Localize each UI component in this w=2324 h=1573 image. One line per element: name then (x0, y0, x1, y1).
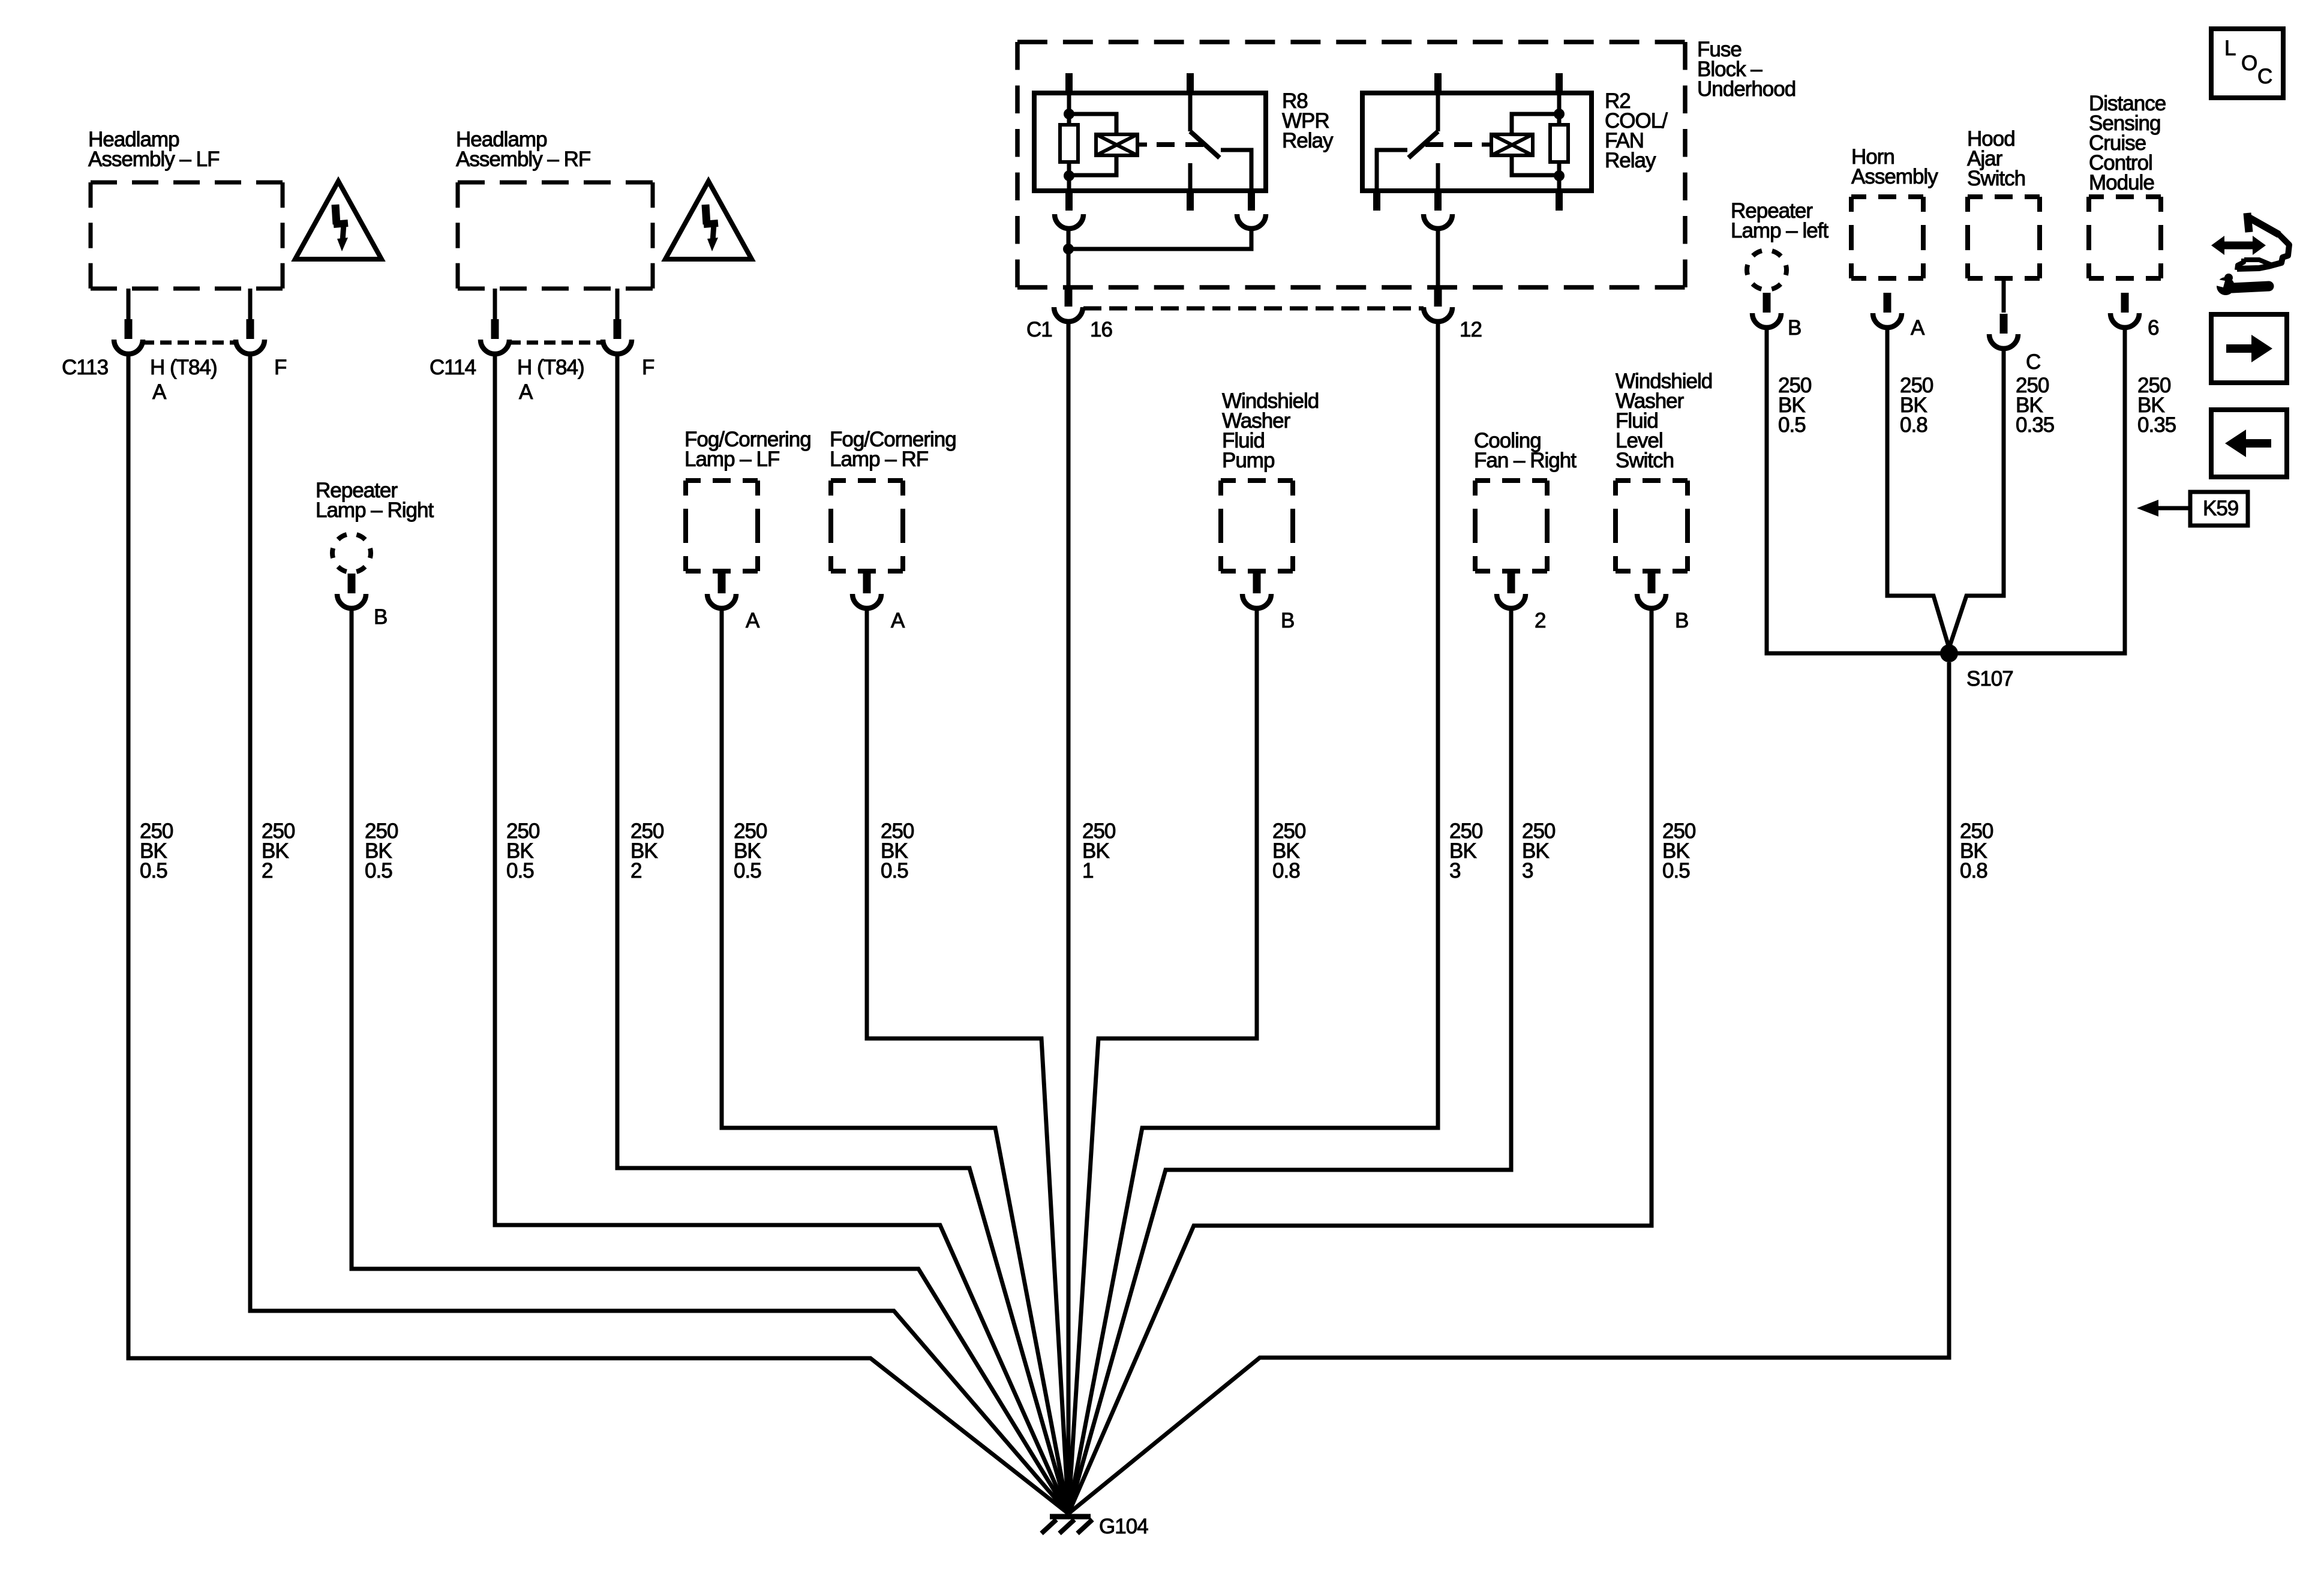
svg-text:Assembly – LF: Assembly – LF (88, 148, 219, 171)
svg-text:3: 3 (1449, 859, 1460, 882)
connector fog RF pin A (852, 574, 881, 608)
label 250 BK 2 (w2) (262, 819, 295, 882)
svg-text:Lamp – LF: Lamp – LF (684, 448, 779, 471)
windshield washer fluid pump label (1222, 389, 1319, 472)
svg-text:0.8: 0.8 (1960, 859, 1987, 882)
relay R8 bottom pin 2 (1187, 191, 1194, 211)
headlamp RF stub pin H (493, 289, 497, 320)
connector repeater right pin B (337, 574, 366, 608)
K59 arrow line (2157, 506, 2190, 511)
label C113 (62, 356, 108, 379)
wire 1 C113-A to ground (128, 354, 1068, 1514)
label 16 (1090, 318, 1112, 341)
relay R2 winding (1491, 134, 1533, 155)
horn assembly label (1851, 145, 1938, 188)
svg-text:Switch: Switch (1967, 167, 2025, 190)
headlamp RF stub pin F (615, 289, 620, 320)
LOC letters (2224, 37, 2272, 88)
svg-text:0.8: 0.8 (1900, 413, 1927, 437)
wire module to S107 (1954, 328, 2125, 653)
label 250 BK 0.5 (w4) (506, 819, 540, 882)
svg-text:3: 3 (1522, 859, 1533, 882)
wire 6 fog LF to ground (722, 608, 1068, 1514)
hood ajar switch box (1968, 197, 2040, 278)
wire hood ajar to S107 (1949, 349, 2004, 648)
repeater lamp left dashed circle (1747, 250, 1786, 290)
relay R8 junction dot top (1064, 109, 1074, 119)
label H (T84) RF (517, 356, 584, 379)
svg-text:6: 6 (2148, 316, 2158, 340)
connector pump pin B (1242, 574, 1271, 608)
relay R8 bottom pin 3 (1248, 191, 1255, 211)
relay R8 junction dot bottom (1064, 170, 1074, 181)
cooling fan right label (1474, 429, 1577, 472)
relay R8 top pin 1 (1065, 73, 1073, 93)
fog/cornering lamp RF box (831, 481, 903, 571)
relay R2 top pin 2 (1556, 73, 1563, 93)
svg-text:Relay: Relay (1605, 149, 1656, 172)
svg-text:L: L (2224, 37, 2236, 60)
svg-text:0.35: 0.35 (2016, 413, 2054, 437)
wire 9 pump to ground (1068, 608, 1257, 1514)
relay R8 bottom pin 1 (1065, 191, 1073, 211)
svg-text:B: B (1675, 609, 1688, 632)
svg-text:12: 12 (1460, 318, 1482, 341)
connector hood ajar pin C (1989, 314, 2018, 349)
svg-text:C114: C114 (430, 356, 476, 379)
headlamp assembly RF label (456, 128, 590, 171)
svg-text:F: F (642, 356, 654, 379)
connector C1 pin 16 (1054, 289, 1083, 322)
relay R2 switch contact wire (1377, 150, 1407, 191)
svg-text:0.35: 0.35 (2137, 413, 2176, 437)
label C114 (430, 356, 476, 379)
label 250 BK 0.35 (hood ajar) (2016, 374, 2054, 437)
headlamp LF stub pin F (248, 289, 253, 320)
label pin A (horn) (1911, 316, 1925, 340)
svg-text:Lamp – RF: Lamp – RF (830, 448, 928, 471)
svg-text:0.5: 0.5 (1662, 859, 1690, 882)
svg-text:0.5: 0.5 (140, 859, 167, 882)
relay R8 box (1034, 93, 1266, 191)
wire 12 level switch to ground (1068, 608, 1652, 1514)
svg-text:0.8: 0.8 (1272, 859, 1300, 882)
svg-text:Underhood: Underhood (1697, 77, 1795, 101)
windshield washer fluid level switch label (1616, 370, 1712, 472)
relay R8 switch blade (1190, 131, 1220, 158)
warning triangle LF (295, 181, 382, 259)
relay R8 switch contact wire (1221, 150, 1251, 191)
svg-text:A: A (152, 380, 167, 404)
svg-text:Assembly – RF: Assembly – RF (456, 148, 590, 171)
relay R8 output link wire (1068, 229, 1251, 249)
label pin F (C114) (642, 356, 654, 379)
relay R8 switch pivot wire (1188, 93, 1193, 131)
distance sensing cruise control module label (2089, 92, 2166, 194)
svg-text:Lamp – Right: Lamp – Right (316, 499, 434, 522)
wire 13 S107 to ground (1068, 662, 1949, 1514)
wire 3 repeater right to ground (352, 608, 1068, 1514)
label pin 6 (module) (2148, 316, 2158, 340)
relay R2 label (1605, 89, 1668, 172)
svg-text:C1: C1 (1026, 318, 1052, 341)
svg-text:Assembly: Assembly (1851, 165, 1938, 188)
connector C114 pin F (603, 319, 632, 354)
label G104 (1099, 1515, 1148, 1538)
connector C113 pin A (114, 319, 143, 354)
connector fan pin 2 (1497, 574, 1526, 608)
label pin A (fog RF) (891, 609, 905, 632)
svg-text:H (T84): H (T84) (517, 356, 584, 379)
K59 box (2190, 492, 2248, 526)
svg-text:B: B (1281, 609, 1294, 632)
svg-text:H (T84): H (T84) (150, 356, 217, 379)
relay R8 actuation dashes (1157, 142, 1203, 147)
right arrow box (2211, 314, 2287, 383)
relay R2 winding loop bottom (1512, 155, 1559, 175)
headlamp assembly LF label (88, 128, 219, 171)
relay R8 label (1282, 89, 1334, 152)
svg-text:2: 2 (630, 859, 641, 882)
repeater lamp right dashed circle (332, 534, 371, 572)
wire 5 C114-F to ground (617, 354, 1068, 1514)
svg-text:B: B (1788, 316, 1801, 340)
relay R2 resistor (1550, 125, 1568, 162)
cooling fan right box (1475, 481, 1547, 571)
relay R8 bottom arc 3 (1237, 214, 1266, 229)
svg-text:O: O (2241, 52, 2257, 75)
svg-text:A: A (746, 609, 760, 632)
hood ajar switch stub (2002, 278, 2006, 313)
wire 8 C1-16 to ground (1067, 322, 1071, 1514)
relay R2 bottom pin 3 (1556, 191, 1563, 211)
wire 2 C113-F to ground (250, 354, 1068, 1514)
svg-text:2: 2 (1535, 609, 1545, 632)
wire repeater left to S107 (1767, 328, 1944, 653)
connector level switch pin B (1637, 574, 1666, 608)
svg-text:A: A (519, 380, 533, 404)
label 250 BK 2 (w5) (630, 819, 664, 882)
relay R2 winding stub (1482, 143, 1491, 147)
connector C113 pin F (236, 319, 265, 354)
fuse block underhood label (1697, 38, 1795, 101)
label pin B (repeater left) (1788, 316, 1801, 340)
label pin C (hood ajar) (2026, 350, 2040, 374)
relay R8 winding loop top (1069, 114, 1116, 134)
label pin B (repeater right) (374, 605, 387, 629)
label 250 BK 3 (w10) (1449, 819, 1483, 882)
svg-text:16: 16 (1090, 318, 1112, 341)
label 12 (1460, 318, 1482, 341)
relay R2 winding loop top (1512, 114, 1559, 134)
ground G104 symbol (1041, 1517, 1092, 1533)
label 250 BK 0.5 (w6) (734, 819, 767, 882)
adjust icon wrench (2211, 274, 2269, 295)
svg-text:F: F (274, 356, 286, 379)
repeater lamp left label (1731, 199, 1828, 242)
relay R2 switch blade (1409, 131, 1438, 158)
wire 4 C114-A to ground (495, 354, 1068, 1514)
relay R8 coil wire bottom (1067, 162, 1071, 191)
connector module pin 6 (2110, 293, 2139, 328)
adjust icon double arrow (2211, 236, 2266, 255)
wire 11 fan to ground (1068, 608, 1511, 1514)
relay R2 box (1362, 93, 1592, 191)
svg-text:C: C (2026, 350, 2040, 374)
label 250 BK 0.8 (horn) (1900, 374, 1933, 437)
relay R8 bottom arc 1 (1055, 214, 1083, 229)
right arrow (2226, 335, 2272, 362)
relay R2 switch throw stub (1436, 163, 1440, 191)
svg-text:0.5: 0.5 (365, 859, 392, 882)
LOC box (2211, 29, 2283, 98)
connector repeater left pin B (1752, 293, 1781, 328)
svg-text:Pump: Pump (1222, 449, 1274, 472)
relay R2 bottom arc 2 (1424, 214, 1452, 229)
label 250 BK 0.5 (w12) (1662, 819, 1696, 882)
fog/cornering lamp LF label (684, 428, 811, 471)
svg-text:Relay: Relay (1282, 129, 1334, 152)
headlamp assembly RF box (458, 182, 653, 289)
relay R2 actuation dashes (1425, 142, 1472, 147)
svg-text:G104: G104 (1099, 1515, 1148, 1538)
relay R8 winding loop bottom (1069, 155, 1116, 175)
svg-text:1: 1 (1082, 859, 1093, 882)
relay R8 winding stub (1137, 143, 1147, 147)
label pin B (level switch) (1675, 609, 1688, 632)
svg-text:0.5: 0.5 (1778, 413, 1806, 437)
connector C114 dotted line (509, 341, 603, 345)
fog/cornering lamp RF label (830, 428, 956, 471)
splice S107 dot (1940, 644, 1958, 662)
label C1 (1026, 318, 1052, 341)
adjust icon outline (2237, 213, 2289, 270)
relay R2 coil wire top (1557, 93, 1562, 125)
svg-text:Lamp – left: Lamp – left (1731, 219, 1828, 242)
label pin F (C113) (274, 356, 286, 379)
warning triangle RF (665, 181, 752, 259)
svg-text:A: A (1911, 316, 1925, 340)
svg-text:0.5: 0.5 (734, 859, 761, 882)
wire 7 fog RF to ground (867, 608, 1068, 1514)
horn assembly box (1851, 197, 1923, 278)
wire R8 arc to junction (1067, 229, 1071, 290)
label 250 BK 0.8 (w13) (1960, 819, 1993, 882)
relay R8 top pin 2 (1187, 73, 1194, 93)
hood ajar switch label (1967, 127, 2025, 190)
label 250 BK 3 (w11) (1522, 819, 1556, 882)
svg-text:B: B (374, 605, 387, 629)
svg-text:Module: Module (2089, 171, 2154, 194)
windshield washer fluid level switch box (1616, 481, 1688, 571)
left arrow box (2211, 410, 2287, 477)
label 250 BK 0.35 (module) (2137, 374, 2176, 437)
svg-text:Fan – Right: Fan – Right (1474, 449, 1577, 472)
repeater lamp right label (316, 479, 434, 522)
svg-text:K59: K59 (2203, 497, 2238, 520)
label pin A (C114) (519, 380, 533, 404)
svg-text:C: C (2257, 65, 2272, 88)
svg-text:A: A (891, 609, 905, 632)
wire horn to S107 (1887, 328, 1949, 648)
label pin 2 (fan) (1535, 609, 1545, 632)
junction dot below R8 (1063, 244, 1074, 254)
wire R2 arc down (1436, 229, 1440, 290)
fuse block underhood box (1017, 42, 1685, 287)
connector horn pin A (1873, 293, 1902, 328)
label H (T84) (150, 356, 217, 379)
relay R2 junction dot bottom (1554, 170, 1565, 181)
svg-text:C113: C113 (62, 356, 108, 379)
connector C114 pin A (481, 319, 509, 354)
svg-text:2: 2 (262, 859, 272, 882)
connector C1 dotted line (1083, 307, 1424, 311)
label 250 BK 0.5 (repeater left) (1778, 374, 1812, 437)
relay R2 bottom pin 2 (1434, 191, 1442, 211)
connector C1 pin 12 (1424, 289, 1452, 322)
label pin A (fog LF) (746, 609, 760, 632)
relay R8 winding (1096, 134, 1137, 155)
fog/cornering lamp LF box (686, 481, 758, 571)
wire 10 relay 12 to ground (1068, 322, 1438, 1514)
headlamp LF stub pin H (127, 289, 131, 320)
K59 arrowhead (2137, 500, 2158, 517)
label S107 (1966, 667, 2013, 691)
label pin B (pump) (1281, 609, 1294, 632)
label 250 BK 0.5 (w3) (365, 819, 398, 882)
left arrow (2225, 430, 2271, 457)
svg-text:0.5: 0.5 (506, 859, 534, 882)
relay R2 bottom pin 1 (1373, 191, 1380, 211)
label K59 (2203, 497, 2238, 520)
svg-text:S107: S107 (1966, 667, 2013, 691)
label pin A (C113) (152, 380, 167, 404)
relay R8 coil wire top (1067, 93, 1071, 125)
relay R2 coil wire bottom (1557, 162, 1562, 191)
connector C113 dotted line (143, 341, 236, 345)
relay R2 junction dot top (1554, 109, 1565, 119)
label 250 BK 1 (w8) (1082, 819, 1116, 882)
svg-text:Switch: Switch (1616, 449, 1674, 472)
label 250 BK 0.5 (w7) (881, 819, 914, 882)
relay R2 switch pivot wire (1436, 93, 1440, 131)
label 250 BK 0.8 (w9) (1272, 819, 1306, 882)
svg-text:0.5: 0.5 (881, 859, 908, 882)
connector fog LF pin A (707, 574, 736, 608)
relay R8 resistor (1060, 125, 1078, 162)
label 250 BK 0.5 (w1) (140, 819, 173, 882)
windshield washer fluid pump box (1221, 481, 1293, 571)
relay R2 top pin 1 (1434, 73, 1442, 93)
headlamp assembly LF box (91, 182, 283, 289)
relay R8 switch throw stub (1188, 163, 1193, 191)
distance sensing cruise control module box (2089, 197, 2161, 278)
